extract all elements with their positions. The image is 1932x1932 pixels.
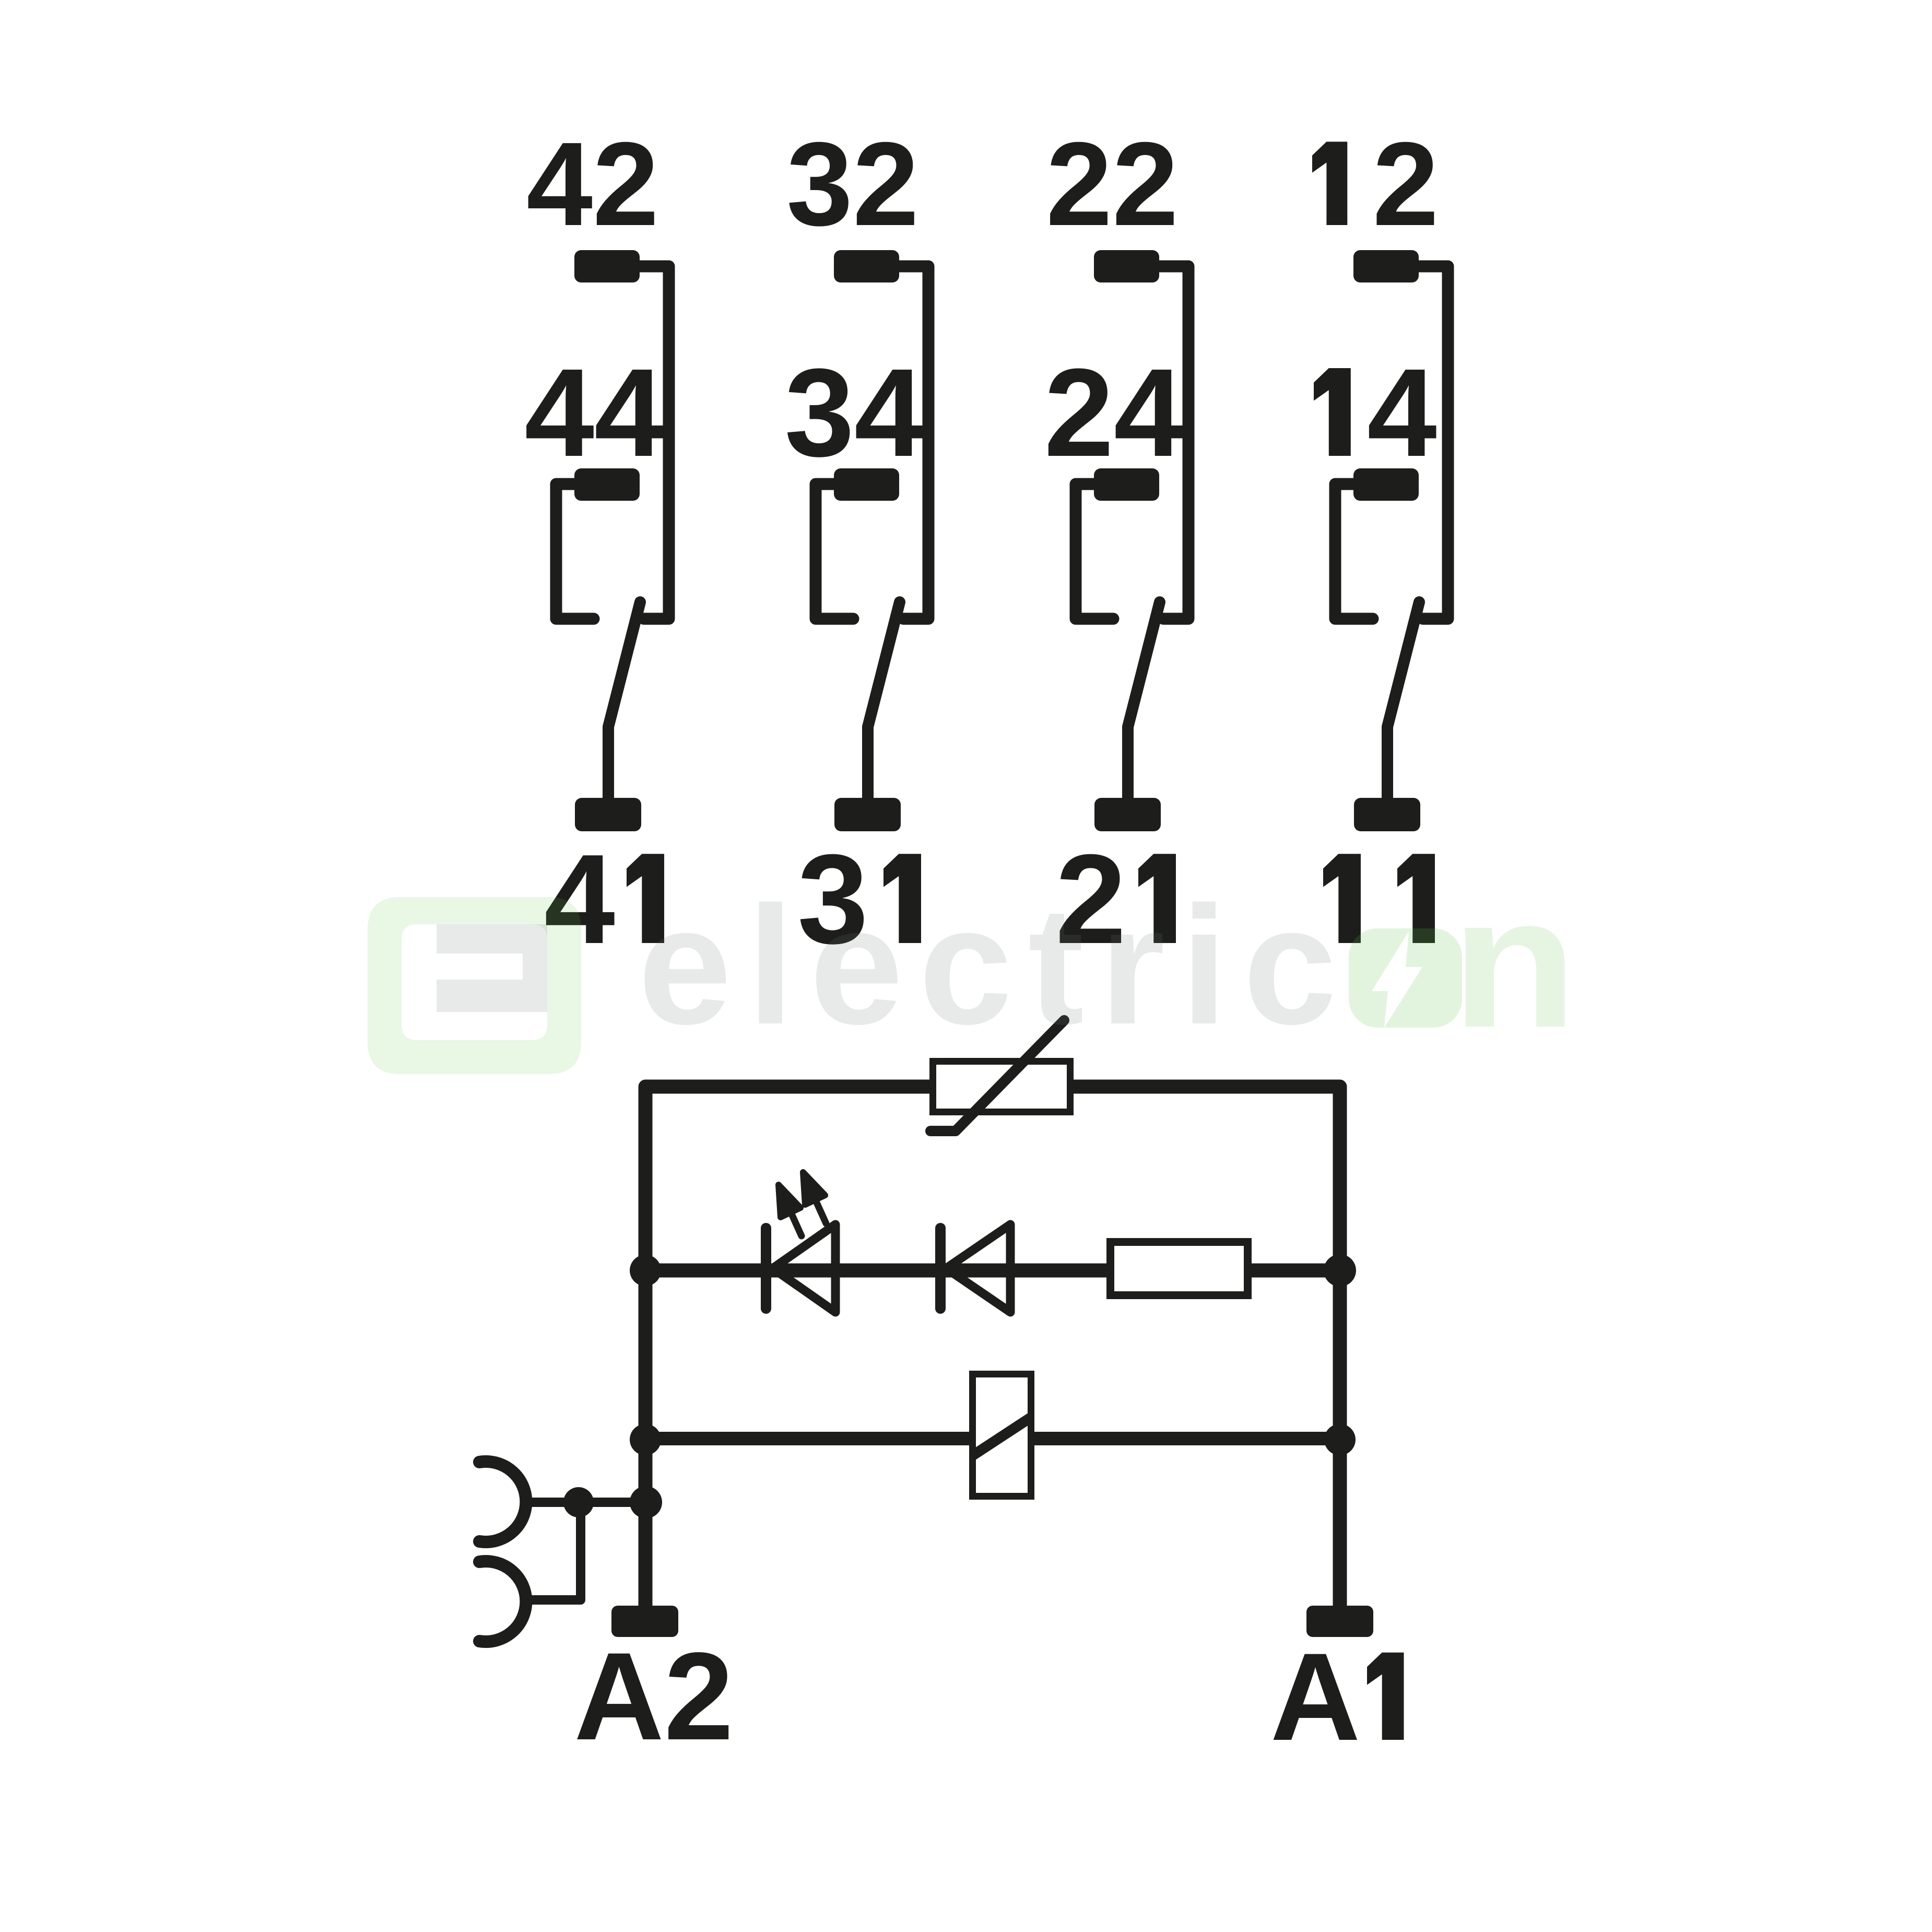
svg-text:24: 24 — [1044, 343, 1184, 482]
svg-text:32: 32 — [786, 118, 919, 251]
svg-text:2: 2 — [1373, 118, 1439, 251]
svg-text:42: 42 — [526, 118, 659, 251]
svg-text:34: 34 — [785, 343, 924, 482]
svg-text:A: A — [1270, 1627, 1361, 1766]
svg-text:n: n — [1451, 857, 1577, 1066]
svg-text:4: 4 — [1367, 343, 1436, 482]
svg-text:electric: electric — [638, 872, 1352, 1059]
svg-text:A2: A2 — [574, 1627, 734, 1766]
svg-text:22: 22 — [1046, 118, 1179, 251]
svg-text:44: 44 — [525, 343, 664, 482]
